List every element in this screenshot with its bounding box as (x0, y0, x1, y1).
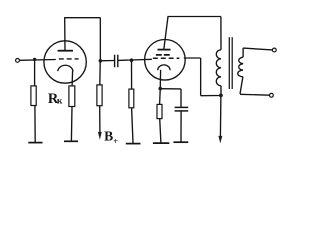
svg-text:к: к (57, 96, 63, 107)
svg-text:B: B (104, 128, 113, 143)
svg-text:+: + (113, 136, 118, 146)
